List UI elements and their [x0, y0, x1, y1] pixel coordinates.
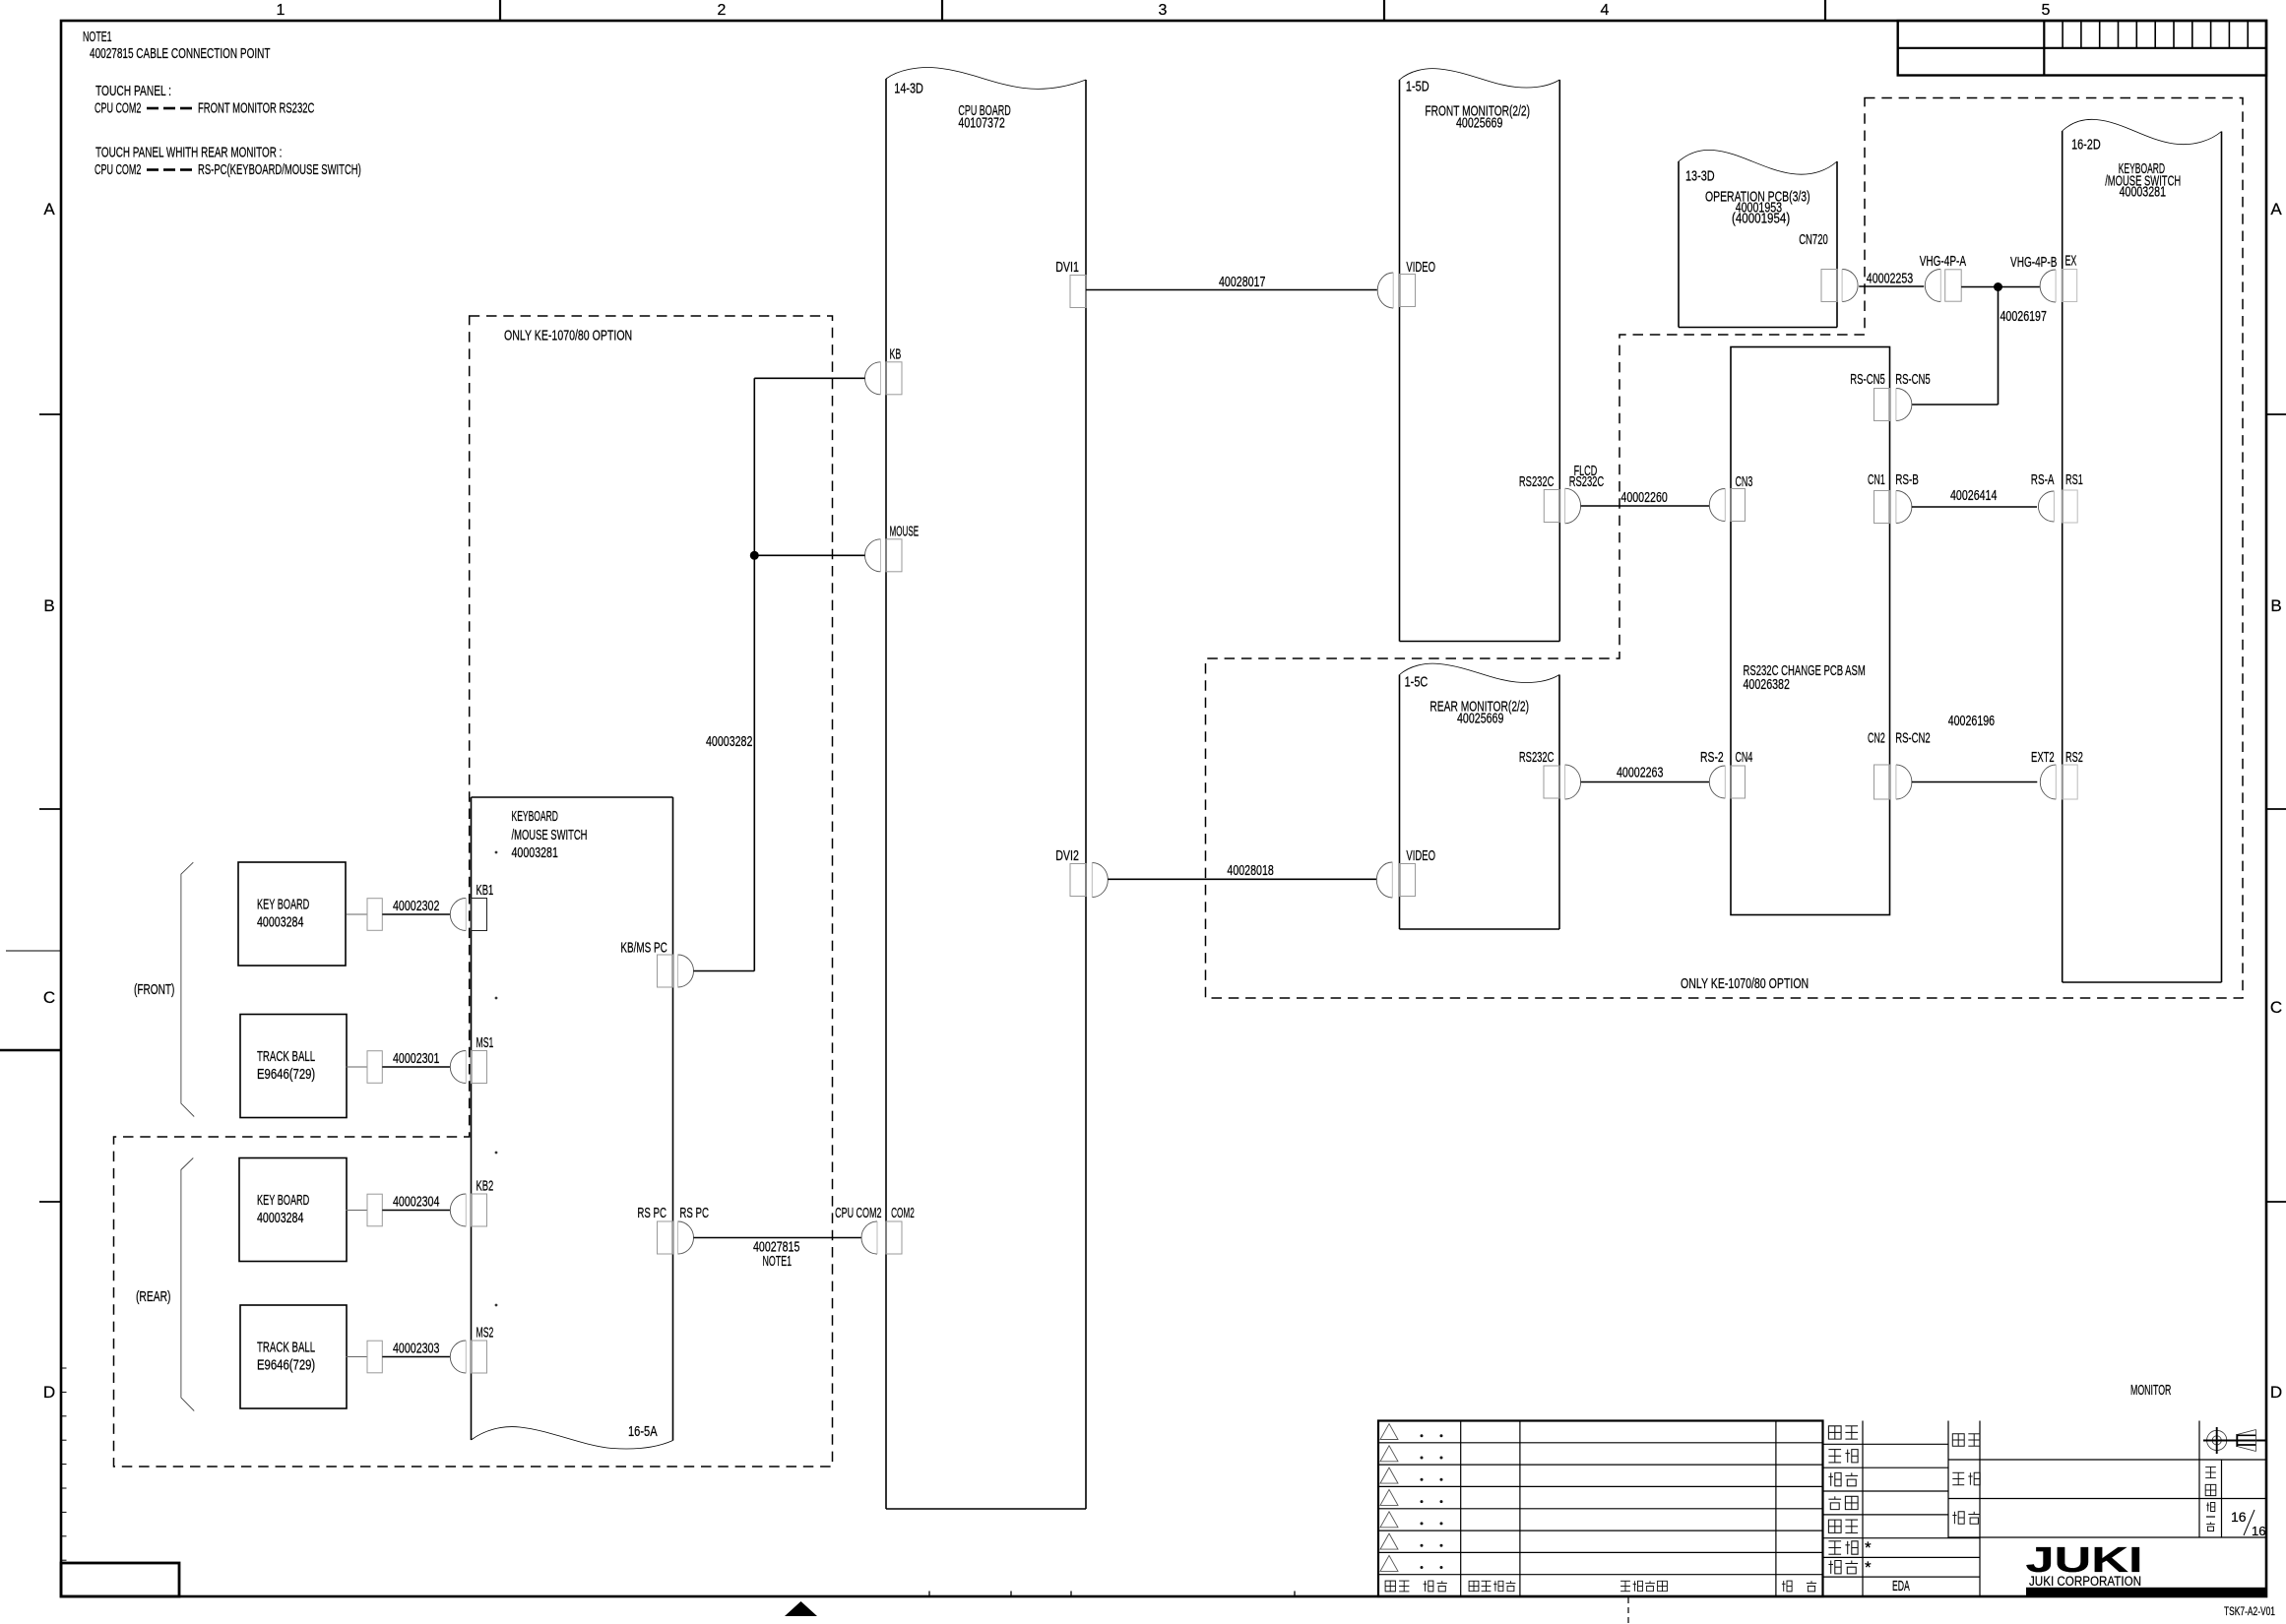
row boundary ticks left [39, 414, 61, 1202]
note text block [83, 30, 361, 178]
wire CN2 to EXT2 [1912, 781, 2038, 783]
dashed box ONLY KE-1070/80 OPTION left (L-shaped) [114, 316, 833, 1467]
svg-text:CN4: CN4 [1736, 750, 1753, 766]
svg-text:40003281: 40003281 [512, 845, 558, 861]
revision table header kanji 記号 日付 変更番号 変更記事 担当 [1385, 1581, 1816, 1592]
box TRACK BALL E9646(729) front [240, 1015, 347, 1118]
svg-text:MOUSE: MOUSE [890, 524, 920, 539]
svg-text:KB2: KB2 [476, 1179, 494, 1195]
svg-text:1-5D: 1-5D [1406, 80, 1429, 95]
title block revision table [1378, 1421, 1823, 1597]
scale cell kanji 尺度 [2205, 1466, 2216, 1468]
svg-text:MS2: MS2 [476, 1326, 494, 1342]
bottom-left small box [61, 1563, 179, 1596]
connector KB/MS PC on left keyboard switch [620, 941, 693, 987]
svg-text:C: C [43, 988, 55, 1007]
svg-text:RS2: RS2 [2065, 750, 2083, 766]
connector RS-A / RS1 on right keyboard switch [2031, 472, 2083, 523]
svg-text:D: D [2270, 1383, 2282, 1402]
svg-text:RS232C: RS232C [1569, 474, 1605, 490]
svg-text:CPU COM2: CPU COM2 [95, 162, 141, 178]
svg-text:2: 2 [718, 2, 727, 19]
svg-text:(FRONT): (FRONT) [134, 982, 174, 998]
svg-text:*: * [1865, 1538, 1872, 1557]
connector VHG-4P-A cable pair [1920, 254, 1967, 302]
svg-text:JUKI CORPORATION: JUKI CORPORATION [2029, 1574, 2141, 1589]
svg-text:40002260: 40002260 [1620, 490, 1667, 506]
connector EXT2 / RS2 on right keyboard switch [2031, 750, 2083, 799]
JUKI logo [2026, 1539, 2267, 1596]
svg-text:DVI2: DVI2 [1055, 848, 1079, 864]
connector FLCD RS232C on front monitor [1519, 464, 1604, 524]
box OPERATION PCB(3/3) 40001953 (40001954) [1679, 150, 1837, 327]
svg-text:14-3D: 14-3D [894, 82, 923, 97]
row boundary ticks right [2266, 414, 2286, 1202]
svg-text:KEY BOARD: KEY BOARD [257, 1193, 309, 1209]
svg-text:(40001954): (40001954) [1732, 212, 1790, 227]
svg-text:16-2D: 16-2D [2071, 138, 2101, 154]
bottom center mark triangle [785, 1601, 817, 1616]
svg-text:VHG-4P-A: VHG-4P-A [1920, 254, 1967, 270]
svg-text:B: B [2270, 596, 2281, 615]
left edge fold marks [0, 951, 61, 1050]
svg-text:40026382: 40026382 [1744, 677, 1790, 693]
svg-text:RS1: RS1 [2065, 472, 2083, 488]
svg-text:40002302: 40002302 [393, 899, 439, 914]
connector RS232C on rear monitor [1519, 750, 1581, 799]
wire 40027815 RS PC to CPU COM2 [694, 1237, 862, 1239]
connector CN720 on operation pcb [1821, 270, 1858, 302]
svg-text:40002301: 40002301 [393, 1051, 439, 1067]
svg-text:TOUCH PANEL WHITH REAR MONITOR: TOUCH PANEL WHITH REAR MONITOR : [95, 146, 282, 161]
box FRONT MONITOR(2/2) 40025669 [1400, 69, 1560, 642]
cable 40002301 TRACK BALL front to MS1 [347, 1035, 494, 1084]
svg-text:DVI1: DVI1 [1055, 260, 1079, 276]
svg-text:CN1: CN1 [1868, 472, 1885, 488]
svg-text:RS-CN2: RS-CN2 [1895, 731, 1931, 747]
box KEY BOARD 40003284 rear [239, 1158, 347, 1262]
svg-text:RS PC: RS PC [637, 1206, 667, 1221]
svg-text:RS-A: RS-A [2031, 472, 2055, 488]
svg-text:1-5C: 1-5C [1405, 675, 1429, 691]
svg-text:RS232C: RS232C [1519, 750, 1555, 766]
svg-text:D: D [43, 1383, 55, 1402]
title block model section 型式 品番 品名 [1948, 1421, 2266, 1538]
svg-text:EDA: EDA [1892, 1579, 1910, 1594]
title block middle section approvals [1823, 1421, 1981, 1597]
connector KB on CPU board [865, 346, 903, 395]
svg-text:3: 3 [1159, 2, 1168, 19]
svg-text:16: 16 [2231, 1509, 2247, 1525]
svg-text:CPU COM2: CPU COM2 [835, 1206, 881, 1221]
svg-text:TOUCH PANEL :: TOUCH PANEL : [95, 84, 171, 99]
connector DVI2 on CPU board [1055, 848, 1108, 898]
box KEYBOARD/MOUSE SWITCH 40003281 right (16-2D) [2063, 119, 2222, 982]
connector RS PC on left keyboard switch [637, 1206, 709, 1254]
top right revision strip [1898, 21, 2266, 76]
wire 40026197 riser [1998, 287, 2000, 406]
svg-text:40028017: 40028017 [1219, 275, 1265, 290]
svg-text:40002253: 40002253 [1867, 272, 1913, 287]
svg-text:40002263: 40002263 [1617, 766, 1663, 781]
box TRACK BALL E9646(729) rear [240, 1305, 347, 1408]
cable 40002302 KEY BOARD front to KB1 [347, 883, 494, 931]
svg-text:TRACK BALL: TRACK BALL [257, 1049, 315, 1065]
svg-text:16: 16 [2252, 1524, 2265, 1538]
svg-text:ONLY KE-1070/80 OPTION: ONLY KE-1070/80 OPTION [504, 329, 632, 344]
row letters left A B C D [43, 200, 55, 1402]
svg-text:RS-2: RS-2 [1700, 750, 1724, 766]
svg-text:RS-CN5: RS-CN5 [1850, 372, 1885, 388]
junction dot VHG [1994, 282, 2002, 291]
svg-text:NOTE1: NOTE1 [83, 30, 112, 45]
connector CPU COM2 / COM2 on CPU board [835, 1206, 915, 1254]
svg-text:40025669: 40025669 [1456, 116, 1502, 132]
svg-text:KEYBOARD: KEYBOARD [512, 809, 558, 825]
wire MOUSE branch [754, 554, 864, 556]
rear group bracket [181, 1158, 194, 1411]
svg-text:VHG-4P-B: VHG-4P-B [2010, 255, 2057, 271]
svg-text:MONITOR: MONITOR [2130, 1383, 2171, 1399]
svg-text:A: A [43, 200, 55, 219]
svg-text:RS232C: RS232C [1519, 474, 1555, 490]
svg-text:E9646(729): E9646(729) [257, 1067, 315, 1083]
wire 40026197 horizontal to RS-CN5 [1912, 404, 1999, 406]
wire KB to keyboard switch [754, 377, 864, 379]
svg-text:EX: EX [2065, 254, 2077, 270]
svg-text:C: C [2270, 998, 2282, 1017]
front group bracket [181, 862, 194, 1116]
svg-text:A: A [2270, 200, 2282, 219]
connector RS-CN5 on change pcb [1850, 372, 1930, 420]
svg-text:4: 4 [1601, 2, 1610, 19]
wire vertical 40003282 [753, 378, 755, 970]
svg-text:VIDEO: VIDEO [1406, 260, 1435, 276]
svg-text:40026414: 40026414 [1950, 488, 1997, 504]
connector DVI1 on CPU board [1055, 260, 1086, 308]
projection symbol circle and cone [2203, 1427, 2267, 1454]
svg-text:RS-CN5: RS-CN5 [1895, 372, 1931, 388]
wire 40028018 DVI2 to rear VIDEO [1108, 878, 1376, 880]
svg-text:40027815 CABLE CONNECTION POIN: 40027815 CABLE CONNECTION POINT [90, 46, 271, 62]
svg-text:5: 5 [2042, 2, 2051, 19]
connector VIDEO on rear monitor [1376, 848, 1435, 898]
wire 40002253 CN720 to VHG-4P-A [1859, 285, 1924, 287]
svg-text:B: B [43, 596, 54, 615]
connector RS-2 / CN4 on change pcb [1700, 750, 1752, 798]
wire 40026414 RS-B to RS-A [1912, 506, 2037, 508]
svg-text:CN720: CN720 [1799, 232, 1828, 248]
connector VIDEO on front monitor [1377, 260, 1435, 308]
svg-text:ONLY KE-1070/80 OPTION: ONLY KE-1070/80 OPTION [1681, 976, 1809, 992]
svg-text:MS1: MS1 [476, 1035, 494, 1051]
top column ticks [500, 0, 1825, 21]
bottom fold dashed mark [1627, 1597, 1629, 1624]
left edge ruler ticks [61, 1368, 67, 1560]
connector EX on right keyboard switch [2063, 254, 2077, 302]
cable 40002304 KEY BOARD rear to KB2 [347, 1179, 494, 1227]
svg-text:40002303: 40002303 [393, 1341, 439, 1356]
svg-text:CN3: CN3 [1736, 474, 1753, 490]
wire 40002263 rear RS232C to CN4 [1581, 781, 1709, 783]
svg-text:40002304: 40002304 [393, 1194, 439, 1210]
column labels 1-5 [277, 2, 2051, 19]
junction dot mouse branch [750, 551, 759, 560]
connector CN2 / RS-CN2 on change pcb [1868, 731, 1931, 800]
wire 40028017 DVI1 to front VIDEO [1086, 289, 1377, 291]
svg-text:40003282: 40003282 [706, 734, 752, 750]
svg-text:COM2: COM2 [891, 1206, 915, 1221]
svg-text:E9646(729): E9646(729) [257, 1358, 315, 1374]
page cell kanji ページ and 16/16 [2206, 1503, 2265, 1539]
connector CN1 / RS-B on change pcb [1868, 472, 1919, 524]
svg-text:40003284: 40003284 [257, 1211, 303, 1226]
box KEY BOARD 40003284 front [238, 862, 346, 966]
svg-text:RS PC: RS PC [679, 1206, 709, 1221]
wire KB/MS PC to CPU riser [694, 970, 755, 972]
svg-text:TRACK BALL: TRACK BALL [257, 1341, 315, 1356]
bottom ruler ticks [929, 1592, 1295, 1597]
box CPU BOARD 40107372 [886, 67, 1086, 1509]
svg-text:40003281: 40003281 [2120, 185, 2166, 201]
svg-text:CPU COM2: CPU COM2 [95, 101, 141, 117]
wire VHG-4P-A to VHG-4P-B [1961, 286, 2040, 288]
svg-text:40107372: 40107372 [958, 116, 1004, 132]
svg-text:RS-B: RS-B [1895, 472, 1919, 488]
svg-text:40026197: 40026197 [2000, 309, 2047, 325]
box KEYBOARD/MOUSE SWITCH 40003281 left (16-5A) [472, 797, 673, 1449]
row letters right A B C D [2270, 200, 2282, 1402]
dots inside left keyboard switch box [495, 851, 498, 1307]
svg-text:NOTE1: NOTE1 [763, 1254, 793, 1270]
svg-text:13-3D: 13-3D [1685, 168, 1715, 184]
cable 40002303 TRACK BALL rear to MS2 [347, 1326, 494, 1374]
svg-text:KB: KB [890, 346, 902, 362]
svg-text:1: 1 [277, 2, 286, 19]
connector CN3 on change pcb [1709, 474, 1752, 522]
svg-text:16-5A: 16-5A [628, 1424, 658, 1440]
svg-text:40003284: 40003284 [257, 915, 303, 931]
svg-text:RS-PC(KEYBOARD/MOUSE SWITCH): RS-PC(KEYBOARD/MOUSE SWITCH) [198, 162, 361, 178]
wire 40002260 FLCD RS232C to CN3 [1581, 505, 1709, 507]
svg-text:EXT2: EXT2 [2031, 750, 2055, 766]
svg-text:(REAR): (REAR) [136, 1289, 171, 1305]
svg-text:VIDEO: VIDEO [1406, 848, 1435, 864]
svg-text:CN2: CN2 [1868, 731, 1885, 747]
connector MOUSE on CPU board [865, 524, 920, 572]
revision table triangles and dots [1380, 1424, 1443, 1572]
svg-text:TSK7-A2-V01: TSK7-A2-V01 [2224, 1606, 2275, 1618]
svg-text:40026196: 40026196 [1948, 714, 1995, 729]
connector VHG-4P-B cable half [2010, 255, 2057, 302]
svg-text:KEY BOARD: KEY BOARD [257, 898, 309, 913]
svg-text:/MOUSE SWITCH: /MOUSE SWITCH [512, 828, 588, 843]
box RS232C CHANGE PCB ASM 40026382 [1731, 347, 1890, 915]
svg-text:KB/MS PC: KB/MS PC [620, 941, 667, 957]
svg-text:FRONT MONITOR RS232C: FRONT MONITOR RS232C [198, 101, 314, 117]
approval labels kanji 承認 検図 設計 製図 作成 保管 類似 [1828, 1426, 1858, 1574]
box REAR MONITOR(2/2) 40025669 [1400, 663, 1560, 929]
svg-text:40028018: 40028018 [1227, 863, 1273, 879]
dashed box ONLY KE-1070/80 OPTION right (staircase) [1206, 98, 2244, 999]
svg-text:40025669: 40025669 [1457, 712, 1503, 727]
svg-text:*: * [1865, 1558, 1872, 1577]
svg-text:KB1: KB1 [476, 883, 494, 899]
